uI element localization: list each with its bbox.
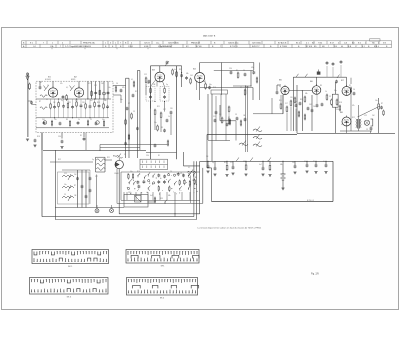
capacitor C6: [107, 92, 110, 94]
feed line 2: [196, 161, 198, 219]
resistor R33: [69, 122, 70, 126]
wire drop x=190: [189, 192, 191, 200]
capacitor C21b: [166, 119, 169, 121]
svg-text:ECH81: ECH81: [45, 79, 51, 81]
resistor R27: [244, 90, 246, 94]
resistor R47: [350, 88, 352, 92]
output transformer T2: [357, 119, 359, 129]
parts on feeder wires: [125, 120, 127, 124]
capacitor C20b: [126, 107, 129, 109]
resistor R35: [304, 97, 306, 101]
junction dot on grid wire: [302, 90, 303, 91]
svg-text:5p: 5p: [92, 159, 94, 161]
svg-text:C30: C30: [58, 136, 61, 138]
svg-text:0,1: 0,1: [131, 79, 133, 81]
tuning indicator tube B9 EM80: [115, 160, 123, 168]
capacitor C16: [89, 105, 92, 107]
wire drop x=160: [159, 192, 161, 200]
svg-text:R1: R1: [349, 85, 351, 87]
svg-text:220: 220: [290, 97, 293, 99]
svg-text:C17: C17: [285, 103, 288, 105]
svg-text:0,1: 0,1: [240, 87, 242, 89]
wafer switch element 10: [143, 180, 146, 182]
padding capacitor C2: [62, 96, 65, 98]
switch arm on bus 2: [250, 158, 253, 162]
svg-text:C22: C22: [94, 85, 97, 87]
loudspeaker LS1: [364, 120, 369, 125]
wafer switch diagram SK1a: [32, 250, 109, 264]
tube B3 EF85 IF amplifier: [155, 72, 165, 82]
wafer switch element 18: [158, 187, 159, 190]
svg-text:R7: R7: [39, 101, 41, 103]
trimmer arrow near B2: [70, 86, 75, 92]
svg-text:C2: C2: [329, 96, 331, 98]
wafer switch diagram SK3a: [30, 278, 109, 295]
capacitor C37: [244, 118, 247, 120]
svg-text:C9: C9: [133, 111, 135, 113]
IF strip frame left: [150, 66, 152, 159]
svg-text:C2: C2: [124, 154, 126, 156]
mid horizontal wire: [200, 87, 253, 89]
wafer switch element 27: [179, 181, 180, 184]
svg-text:47k: 47k: [352, 105, 355, 107]
capacitor C29: [226, 123, 229, 125]
svg-text:B7 A45 B: B7 A45 B: [278, 41, 287, 44]
resistor R15: [85, 104, 87, 108]
tone capacitor C62: [81, 185, 84, 187]
capacitor C30: [43, 122, 46, 124]
wafer switch element 34: [192, 173, 195, 176]
trimmer circle T2: [43, 121, 47, 125]
tube B1 ECH81 mixer: [48, 88, 57, 97]
mains selector box: [124, 195, 148, 208]
tuner dashed enclosure: [36, 81, 113, 132]
svg-text:R9: R9: [313, 161, 315, 163]
capacitor C34: [307, 107, 310, 109]
capacitor C25: [230, 71, 233, 73]
fuse F1: [154, 198, 156, 202]
capacitor C12: [71, 106, 74, 108]
svg-text:R9: R9: [66, 119, 68, 121]
wire drop x=136: [135, 192, 137, 200]
svg-text:PM50517: PM50517: [191, 42, 201, 44]
switch bank enclosure inner: [121, 172, 200, 200]
RF coil L3: [40, 107, 47, 109]
tuner internal bus bottom: [36, 117, 109, 119]
svg-text:G25 R1805: G25 R1805: [168, 42, 179, 44]
svg-text:68k: 68k: [168, 195, 171, 197]
wire from tuner to IF strip: [41, 133, 43, 151]
capacitor C18: [98, 105, 101, 107]
svg-text:C2: C2: [90, 119, 92, 121]
wafer switch element 11: [147, 173, 150, 176]
capacitor C18: [120, 89, 123, 91]
wire drop x=182: [181, 192, 183, 200]
wafer switch element 6: [137, 174, 140, 177]
lamp symbol above IF: [166, 61, 169, 63]
svg-text:4n7: 4n7: [295, 101, 298, 103]
wafer switch element 12: [148, 180, 150, 182]
svg-text:R33: R33: [300, 99, 303, 101]
screen resistor R41: [326, 95, 328, 99]
left rail: [54, 150, 56, 207]
svg-text:10n: 10n: [108, 87, 111, 89]
dial lamp LA1: [95, 209, 99, 213]
capacitor C26: [244, 73, 247, 75]
tone pot P3: [253, 144, 262, 147]
resistor R5: [91, 92, 93, 96]
svg-text:R18: R18: [339, 102, 342, 104]
svg-text:50p: 50p: [334, 90, 337, 92]
resistor R34: [294, 98, 296, 102]
tuner internal bus top: [36, 98, 111, 100]
resistor R18: [133, 82, 135, 86]
wire drop x=141: [140, 192, 142, 200]
svg-text:C4: C4: [116, 83, 118, 85]
trimmer T1: [103, 92, 106, 95]
capacitor C24: [208, 86, 211, 88]
resistor R23a: [172, 70, 174, 74]
feed line 4: [202, 168, 204, 204]
capacitor C32: [276, 91, 279, 93]
tone block enclosure: [58, 172, 90, 204]
AF line to volume control: [219, 105, 221, 121]
svg-text:2k2: 2k2: [147, 83, 150, 85]
capacitor C38: [316, 104, 319, 106]
wafer switch element 16: [157, 174, 160, 176]
svg-text:220: 220: [243, 161, 246, 163]
AVC line: [100, 144, 167, 146]
feedback capacitor C43: [353, 92, 356, 94]
B3 cathode leads: [156, 81, 158, 86]
switch arm on bus 1: [236, 158, 239, 162]
wafer switch element 28: [178, 187, 181, 190]
svg-text:1k: 1k: [325, 91, 327, 93]
switch bank inner box top: [121, 171, 200, 173]
svg-text:C41: C41: [190, 75, 193, 77]
antenna A1: [27, 73, 29, 137]
decoupling capacitor C21: [170, 111, 173, 113]
long drop x=175: [174, 192, 176, 217]
svg-text:R12: R12: [352, 117, 355, 119]
filter capacitor C51: [207, 161, 209, 165]
wafer switch element 8: [138, 185, 141, 187]
wafer switch element 3: [127, 187, 129, 189]
tube B4 anode wire: [199, 63, 201, 73]
capacitor C28: [214, 119, 217, 121]
svg-text:68k: 68k: [186, 73, 189, 75]
svg-text:La tension depart et les valeu: La tension depart et les valeurs en haut…: [198, 227, 262, 230]
svg-text:2k2: 2k2: [372, 115, 375, 117]
capacitor C55: [294, 161, 296, 165]
screen resistor R23: [176, 72, 178, 76]
antenna coupling coil L1: [29, 84, 31, 89]
marks above rail: [337, 75, 340, 79]
svg-text:C9: C9: [235, 114, 237, 116]
svg-text:R9: R9: [161, 127, 163, 129]
HT bus: [200, 160, 333, 162]
capacitor C34: [77, 122, 80, 124]
resistor R37: [298, 112, 300, 116]
svg-text:68k: 68k: [104, 100, 107, 102]
IF strip frame top: [151, 65, 182, 67]
svg-text:1-7 C5qxxB45GBE15BB4 B: 1-7 C5qxxB45GBE15BB4 B: [65, 46, 91, 48]
parts table: [22, 41, 392, 48]
feed verticals: [301, 91, 303, 131]
switch arm on bus 3: [268, 158, 271, 162]
junction dots: [87, 98, 88, 99]
capacitor C32: [59, 122, 62, 124]
resistor R17: [94, 103, 96, 107]
svg-text:B7 4B: B7 4B: [196, 46, 202, 48]
svg-text:10n: 10n: [120, 99, 123, 101]
svg-text:R12: R12: [58, 159, 61, 161]
coupling capacitor C15: [34, 139, 37, 141]
svg-text:R33: R33: [97, 102, 100, 104]
antenna series capacitor C0: [30, 101, 33, 103]
resistor R28: [221, 118, 223, 122]
wafer switch element 21: [168, 174, 170, 176]
resistor R13: [76, 102, 78, 106]
svg-text:R12: R12: [88, 83, 91, 85]
resistor R19: [145, 78, 147, 82]
wafer switch element 14: [152, 174, 155, 177]
svg-text:C30: C30: [146, 155, 149, 157]
detector bottom row: [208, 140, 230, 142]
svg-text:5p: 5p: [279, 86, 281, 88]
tube B1 anode lead: [52, 81, 54, 88]
IF transformer S1 (dashed can): [146, 87, 155, 102]
wafer switch element 4: [132, 175, 133, 178]
svg-text:B 250 6,3: B 250 6,3: [307, 200, 314, 202]
resistor R48: [383, 111, 384, 115]
svg-text:R18: R18: [137, 171, 140, 173]
svg-text:C17: C17: [75, 100, 78, 102]
svg-text:C17: C17: [230, 162, 233, 164]
tone capacitor C63: [85, 195, 88, 197]
svg-text:GZ 6745x: GZ 6745x: [252, 42, 262, 44]
svg-text:10n: 10n: [64, 184, 67, 186]
svg-text:1k: 1k: [168, 116, 170, 118]
svg-text:R12: R12: [135, 91, 138, 93]
wires below IF cans: [150, 101, 152, 109]
svg-text:68k: 68k: [280, 164, 283, 166]
tube B8 EL84 output: [342, 117, 351, 126]
tone pot P2: [253, 137, 262, 140]
capacitor C8: [53, 106, 56, 108]
svg-text:C41: C41: [292, 162, 295, 164]
resistor R3: [66, 96, 68, 100]
svg-text:R7: R7: [228, 117, 230, 119]
tube B4 EABC80 detector: [195, 73, 205, 83]
volume potentiometer R46: [378, 104, 380, 109]
svg-text:10n: 10n: [224, 120, 227, 122]
svg-text:68k: 68k: [305, 93, 308, 95]
resistor column R39: [228, 107, 230, 111]
shielded can: [332, 94, 338, 107]
svg-text:C4: C4: [47, 85, 49, 87]
resistor R6: [99, 91, 101, 95]
svg-text:C30: C30: [336, 109, 339, 111]
svg-text:R12: R12: [246, 87, 249, 89]
capacitor C35: [311, 109, 314, 111]
svg-text:R7: R7: [74, 185, 76, 187]
volume feed wires down: [207, 94, 209, 140]
svg-text:47k: 47k: [122, 87, 125, 89]
svg-text:R21: R21: [279, 100, 282, 102]
svg-text:4 BB: 4 BB: [144, 46, 149, 48]
svg-text:C4: C4: [243, 70, 245, 72]
feed line 3: [199, 161, 201, 214]
cathode resistor R22: [160, 113, 162, 117]
bandpass trimmer box: [211, 90, 228, 94]
resistor R19b: [131, 114, 133, 118]
svg-text:5p: 5p: [212, 162, 214, 164]
resistor R11: [67, 104, 69, 108]
svg-text:220: 220: [82, 102, 85, 104]
wire drop x=148: [147, 192, 149, 200]
svg-text:B4517 Y: B4517 Y: [252, 46, 260, 48]
feeder wire v4: [139, 71, 141, 151]
resistor R32: [286, 107, 288, 111]
svg-text:4n7: 4n7: [174, 69, 177, 71]
detector load network: [199, 83, 201, 101]
wafer switch element 26: [177, 173, 180, 175]
long vertical to output: [350, 78, 352, 84]
svg-text:C22: C22: [213, 116, 216, 118]
oscillator coil assembly T1: [95, 157, 97, 172]
svg-text:PHILIPS 4 A: PHILIPS 4 A: [83, 41, 95, 44]
capacitor C27: [252, 71, 255, 73]
B+ top rail: [293, 76, 346, 78]
svg-text:4AB 41547 B: 4AB 41547 B: [203, 34, 216, 37]
capacitor C14: [80, 104, 83, 106]
resistor R21b: [157, 126, 159, 130]
resistor R25: [205, 84, 207, 88]
dial lamp LA2: [110, 209, 114, 213]
filter capacitor C52: [214, 161, 216, 167]
feeder wire v2: [128, 78, 130, 158]
supply outline bottom: [212, 201, 334, 203]
wafer switch element 17: [157, 180, 160, 182]
grid resistor R21: [154, 110, 156, 114]
treble potentiometer R61: [62, 175, 74, 177]
tube B5 EABC80 AF: [281, 86, 289, 94]
battery BT1: [282, 161, 284, 174]
wire drop x=167: [166, 192, 168, 200]
tube B2 EF89 RF amp: [74, 88, 83, 97]
top coupling line: [214, 70, 254, 72]
capacitor C54: [262, 161, 264, 167]
svg-text:5p: 5p: [166, 84, 168, 86]
AF feed vertical: [292, 77, 294, 131]
wafer switch diagram SK2a: [126, 250, 199, 264]
resistor R42: [331, 100, 333, 104]
wafer switch element 13: [147, 187, 150, 190]
B8 cathode to rail: [346, 126, 348, 133]
resistor R9: [58, 103, 60, 107]
svg-text:220: 220: [170, 108, 173, 110]
feeder top link: [126, 77, 129, 79]
capacitor C20: [106, 105, 109, 107]
mains switch SK5: [164, 201, 167, 204]
capacitor C36: [95, 122, 98, 124]
svg-text:R21: R21: [224, 162, 227, 164]
svg-text:R1: R1: [158, 155, 160, 157]
wafer switch element 9: [143, 176, 146, 179]
svg-text:R33: R33: [160, 198, 163, 200]
capacitor C16: [61, 140, 64, 142]
svg-text:R33: R33: [179, 69, 182, 71]
svg-text:C41: C41: [42, 119, 45, 121]
switch cluster speckles: [171, 188, 172, 189]
svg-text:R7: R7: [381, 103, 383, 105]
svg-text:G25 B: G25 B: [144, 42, 150, 44]
svg-text:10n: 10n: [375, 100, 378, 102]
coil connection to eye: [105, 159, 113, 161]
tone capacitor C44: [370, 127, 373, 129]
svg-text:R1: R1: [40, 82, 42, 84]
coupling capacitor C22: [180, 74, 183, 76]
resistor R26b: [256, 78, 258, 82]
svg-text:2k2: 2k2: [101, 83, 104, 85]
wafer switch element 31: [187, 174, 190, 177]
electrolytic C56: [306, 161, 308, 164]
oscillator section verticals: [87, 81, 89, 99]
switch legend link: [182, 152, 184, 166]
wire below tuner row: [36, 127, 109, 129]
svg-text:47k: 47k: [180, 173, 183, 175]
trimmer arrow near B1: [44, 86, 49, 92]
wafer switch element 7: [137, 181, 140, 183]
bottom bus 2: [55, 219, 196, 221]
svg-text:C4: C4: [353, 89, 355, 91]
resistor R35: [87, 121, 88, 125]
svg-text:1k: 1k: [323, 161, 325, 163]
capacitor C21d: [154, 144, 157, 146]
svg-text:25u: 25u: [313, 106, 316, 108]
capacitor C36: [236, 117, 239, 119]
svg-text:R21: R21: [157, 106, 160, 108]
RF coil L2: [40, 95, 47, 97]
capacitor C45: [380, 106, 383, 108]
svg-text:R9: R9: [320, 85, 322, 87]
wafer switch element 1: [128, 175, 129, 178]
resistor R53: [269, 161, 271, 164]
svg-text:R1: R1: [236, 70, 238, 72]
svg-text:5p: 5p: [61, 100, 63, 102]
wafer switch diagram SK4a: [127, 278, 198, 296]
B+ distribution top wire: [207, 134, 297, 136]
link from tuner box: [113, 85, 126, 87]
wafer switch element 20: [163, 181, 166, 183]
vertical drop right of C27: [259, 63, 261, 101]
wire drop x=124: [123, 192, 125, 200]
bottom bus 3: [119, 213, 200, 215]
svg-text:C2: C2: [204, 81, 206, 83]
smoothing resistor R51: [226, 161, 228, 164]
bass potentiometer R62: [62, 186, 74, 188]
table header label box: [370, 39, 381, 41]
svg-text:0,1: 0,1: [341, 124, 343, 126]
svg-text:R21: R21: [107, 157, 110, 159]
wire drop x=127: [126, 192, 128, 200]
resistor R38: [304, 115, 306, 119]
wafer switch element 32: [189, 182, 190, 185]
tube B2 anode lead: [78, 81, 80, 88]
resistor R26: [237, 73, 239, 77]
svg-text:C41: C41: [309, 104, 312, 106]
